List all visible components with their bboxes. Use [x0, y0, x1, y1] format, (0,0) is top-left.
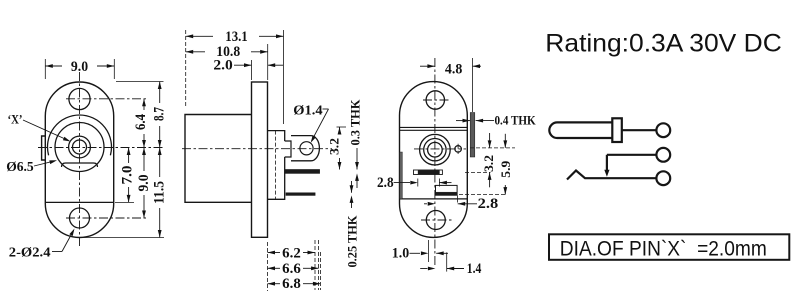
svg-text:11.5: 11.5 — [152, 181, 168, 204]
schematic plug barrel — [549, 122, 612, 138]
svg-text:1.0: 1.0 — [392, 246, 409, 262]
dim 3.2 side line — [339, 127, 341, 134]
dim 9.0 vertical line — [143, 148, 145, 219]
svg-text:Ø1.4: Ø1.4 — [293, 103, 322, 118]
dim 8.7 line — [159, 82, 161, 148]
sleeve spring contact zigzag — [567, 171, 656, 180]
svg-text:3.2: 3.2 — [327, 138, 342, 155]
svg-text:2-Ø2.4: 2-Ø2.4 — [9, 245, 51, 260]
rear view middle contact edge-on — [418, 171, 440, 175]
side view rear housing block — [268, 131, 285, 200]
rear view top mounting hole — [426, 91, 444, 109]
rear view block top edge lines — [400, 126, 468, 128]
housing arc behind barrel — [47, 115, 111, 155]
front view body outline (stadium shape) — [45, 82, 113, 238]
rear dim extension at lug centerline — [470, 147, 515, 149]
bottom mounting hole centerline — [66, 217, 149, 219]
dim 1.0 extension — [427, 240, 429, 262]
svg-text:6.6: 6.6 — [282, 261, 301, 277]
dim 2.8 left line — [394, 182, 410, 184]
switch actuation arrow — [606, 155, 608, 172]
rear view vertical centerline — [434, 58, 436, 265]
bottom dims right extension a — [314, 240, 316, 290]
wire tip to terminal 1 — [622, 129, 657, 131]
rear view bottom hole centerline — [421, 219, 452, 221]
dim text 11.5 — [154, 177, 166, 208]
side view solder lug with hole — [291, 136, 319, 161]
svg-text:Rating:0.3A 30V DC: Rating:0.3A 30V DC — [545, 30, 782, 58]
rear view barrel outer circle — [420, 134, 451, 165]
top mounting hole — [69, 88, 90, 109]
extension line body top right — [116, 81, 164, 83]
rear view block bottom edge — [400, 198, 468, 200]
svg-text:3.2: 3.2 — [481, 155, 496, 172]
dim 2.8 left extension ticks — [417, 179, 419, 187]
dim 0.25 arrows — [351, 181, 353, 193]
terminal 2 circle — [656, 148, 670, 162]
side view lug hole Dia 1.4 — [300, 142, 313, 155]
side view middle contact bar — [285, 170, 320, 174]
dim text 6.4 — [138, 110, 150, 134]
wire switch to terminal 2 — [607, 154, 657, 156]
dim 7.0 line — [128, 148, 130, 203]
rear dim extension at bar top — [465, 171, 491, 173]
dim 6.2 line — [268, 252, 281, 254]
dim 6.4 line — [143, 99, 145, 148]
center pin hole X — [73, 140, 87, 154]
dim 11.5 line — [159, 148, 161, 238]
dim 4.8 right extension — [472, 58, 474, 112]
svg-text:2.8: 2.8 — [478, 196, 499, 212]
svg-text:2.8: 2.8 — [377, 175, 394, 191]
barrel inner ring — [69, 136, 91, 158]
dim 1.4 extension — [446, 252, 448, 271]
svg-text:6.8: 6.8 — [282, 276, 301, 292]
rear view middle contact slot — [414, 170, 443, 175]
dim 9.0 line with arrows — [45, 65, 62, 67]
dim 6.8 line — [268, 283, 281, 285]
top mounting hole centerline — [66, 98, 146, 100]
rear view barrel pin circle — [428, 142, 443, 157]
side view barrel rectangle — [185, 115, 252, 203]
dim text 8.7 — [154, 103, 166, 126]
dim 0.4 arrows — [456, 120, 470, 122]
svg-text:1.4: 1.4 — [467, 261, 482, 277]
dim 1.4 line — [420, 268, 427, 270]
svg-text:2.0: 2.0 — [213, 58, 232, 74]
dim text 7.0 — [123, 163, 135, 187]
extension line body bottom right — [82, 237, 164, 239]
dim 13.1 right extension — [283, 30, 285, 124]
bottom dims right extension b — [318, 240, 320, 290]
dim 9.0 left extension line — [44, 59, 46, 79]
rear view body outline (stadium shape) — [400, 82, 468, 238]
dim 0.3 arrows — [356, 148, 358, 170]
rear view sleeve contact block — [436, 185, 458, 195]
side view mounting flange plate — [252, 82, 268, 237]
rear view horizontal centerline — [414, 148, 466, 150]
rear view small rivet hole — [455, 146, 462, 153]
dim 5.9 rear line — [504, 134, 506, 148]
svg-text:0.4 THK: 0.4 THK — [495, 114, 536, 128]
svg-text:‘X’: ‘X’ — [8, 112, 23, 126]
rear view barrel middle circle — [424, 139, 446, 161]
rear view sleeve contact edge-on — [436, 192, 458, 195]
dim 4.8 line — [420, 65, 435, 67]
rear dim extension at sleeve bar — [459, 194, 507, 196]
svg-text:0.25 THK: 0.25 THK — [346, 215, 360, 267]
leader for Dia 6.5 — [34, 161, 55, 166]
dim 13.1 left extension — [185, 30, 187, 108]
dim 10.8 right extension — [267, 44, 269, 80]
side view washer behind lug — [285, 141, 291, 157]
dim 13.1 line — [186, 35, 213, 37]
dim 3.2 side extension tick — [337, 126, 347, 128]
side view horizontal centerline — [182, 148, 332, 150]
svg-text:7.0: 7.0 — [120, 166, 136, 185]
dim text 9.0 vertical — [138, 171, 150, 195]
dim 1.0 line — [410, 252, 421, 254]
front view horizontal centerline — [38, 147, 164, 149]
dim 2.8 right extension tick — [456, 196, 458, 203]
dim 2.0 line — [234, 64, 252, 66]
dim 10.8 line — [186, 51, 205, 53]
dim 9.0 right extension line — [113, 59, 115, 79]
svg-text:DIA.OF PIN`X` =2.0mm: DIA.OF PIN`X` =2.0mm — [560, 236, 767, 260]
dim 6.6 line — [268, 267, 281, 269]
barrel outer circle Dia 6.5 — [55, 123, 104, 172]
svg-text:9.0: 9.0 — [71, 59, 88, 75]
svg-text:6.2: 6.2 — [282, 245, 301, 261]
bottom dims left extension — [267, 242, 269, 291]
rear view left clip edge-on — [400, 152, 403, 199]
rear view bottom mounting hole — [426, 211, 445, 230]
svg-text:9.0: 9.0 — [136, 175, 152, 192]
note box border — [549, 234, 789, 259]
svg-text:4.8: 4.8 — [445, 61, 462, 77]
leader for 2-Dia 2.4 — [52, 251, 62, 253]
dim 2.8 right line — [424, 203, 427, 205]
rear view top hole centerline — [423, 99, 450, 101]
bottom dims right extension c — [319, 252, 321, 290]
rear view right clip edge-on 0.4 thk — [470, 113, 475, 158]
bottom mounting hole — [70, 208, 90, 228]
terminal 3 circle — [656, 171, 670, 185]
leader for X — [23, 120, 69, 141]
schematic tip contact block — [612, 118, 622, 142]
front view vertical centerline — [79, 72, 81, 246]
svg-text:0.3 THK: 0.3 THK — [349, 99, 363, 145]
side view rear housing hidden line — [275, 131, 277, 200]
svg-text:13.1: 13.1 — [225, 29, 247, 45]
svg-text:8.7: 8.7 — [152, 107, 168, 121]
extension line cap junction right — [115, 201, 134, 203]
front view left locating tab — [42, 136, 46, 160]
svg-text:Ø6.5: Ø6.5 — [6, 160, 34, 175]
side view sleeve contact bar — [286, 193, 315, 196]
dim 3.2 rear line — [489, 133, 491, 148]
dim 2.0 left extension — [251, 60, 253, 80]
barrel bottom tongue flat — [62, 163, 98, 167]
leader for Dia 1.4 — [323, 108, 329, 110]
svg-text:6.4: 6.4 — [133, 114, 149, 130]
terminal 1 circle — [656, 123, 670, 137]
svg-text:5.9: 5.9 — [498, 160, 513, 178]
front view cap junction line — [46, 201, 114, 203]
